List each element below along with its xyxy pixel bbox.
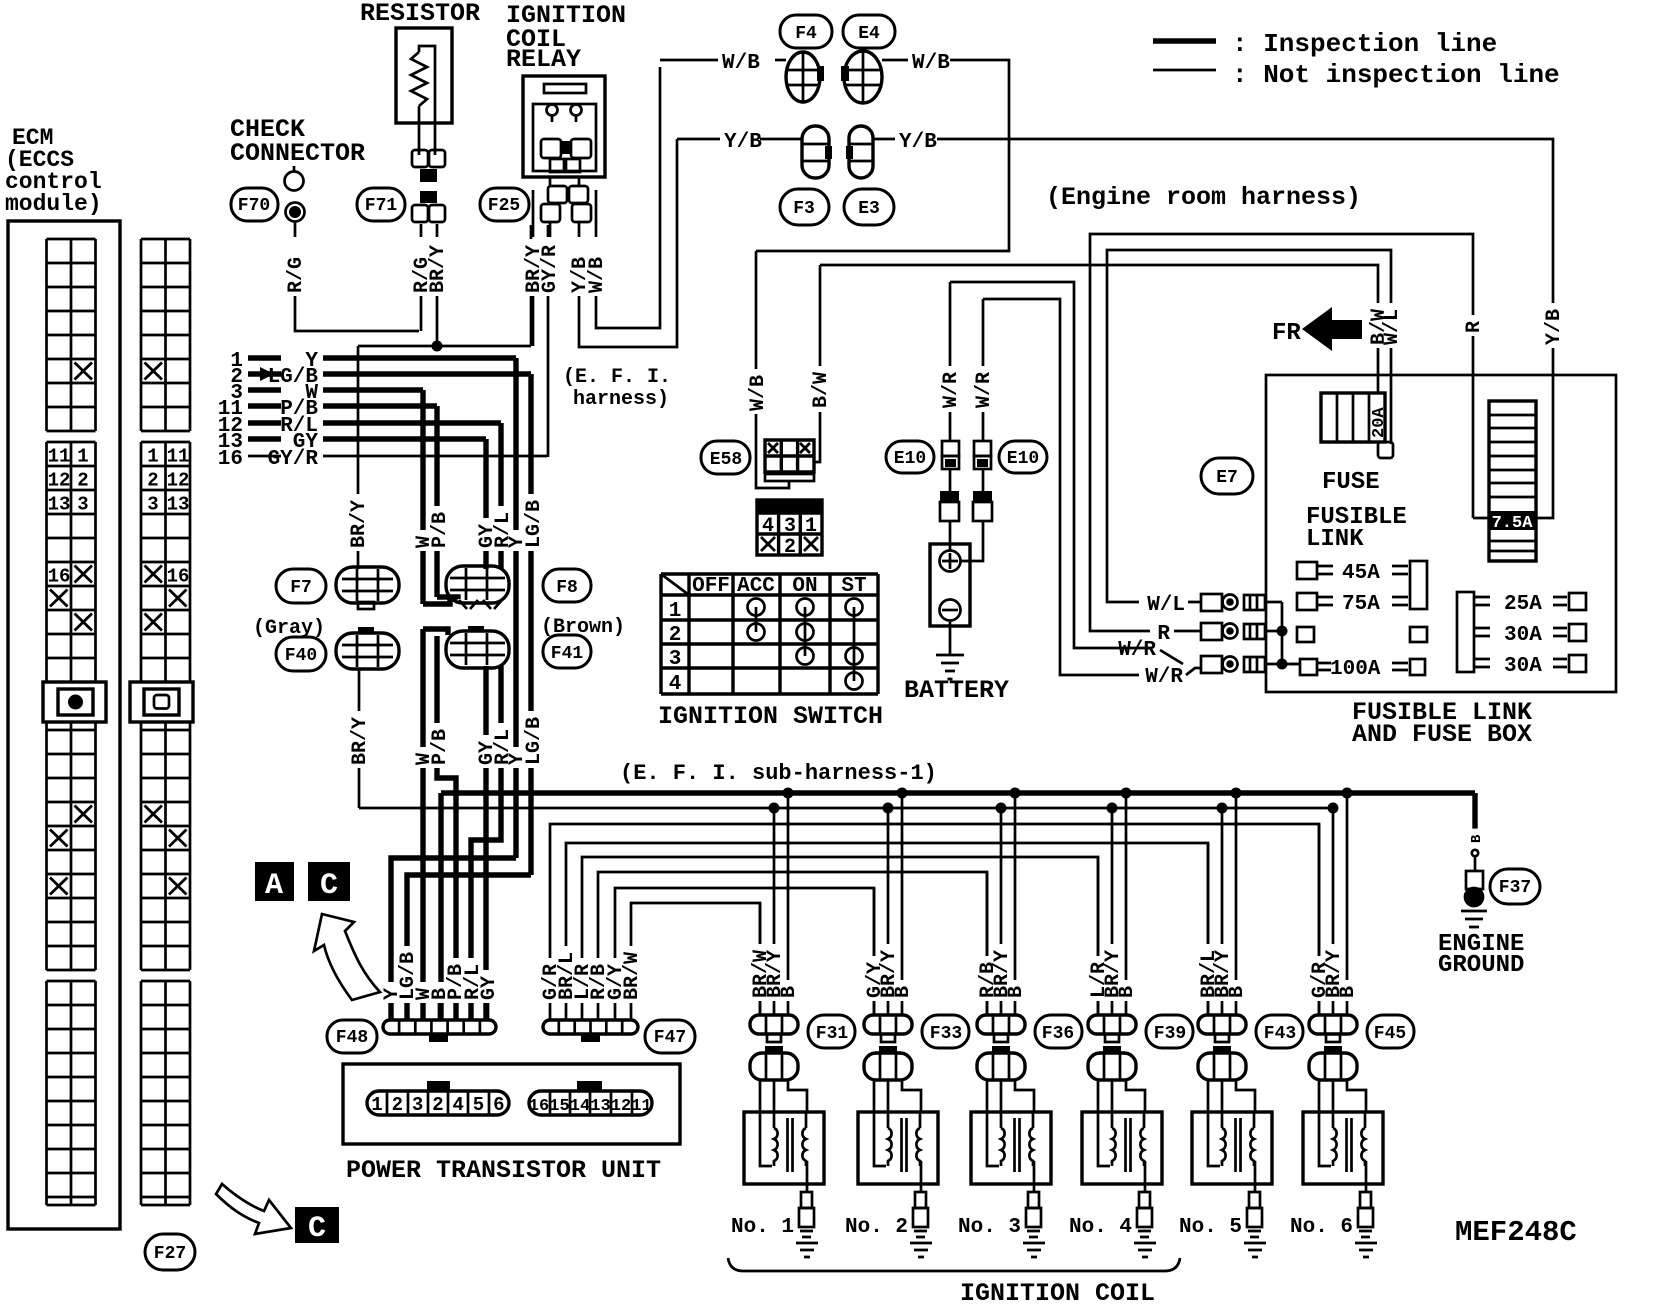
svg-text:E7: E7 [1216, 468, 1238, 488]
connector F8 label [543, 569, 591, 602]
svg-text:E3: E3 [858, 199, 880, 219]
arrow head on pin2 dash [260, 367, 274, 381]
ignition coil no2 box [858, 1112, 938, 1184]
svg-text:RELAY: RELAY [506, 45, 581, 74]
svg-text:No. 3: No. 3 [958, 1216, 1021, 1239]
wire Y to F48 [391, 858, 516, 1020]
svg-text:GY/R: GY/R [539, 245, 562, 293]
wire LG/B to F48 [407, 875, 531, 1020]
coil no2 leads [874, 1080, 921, 1125]
coil no1 leads [760, 1080, 807, 1125]
svg-text:3: 3 [669, 648, 682, 671]
svg-text:F48: F48 [336, 1028, 368, 1048]
svg-text:P/B: P/B [429, 729, 452, 765]
svg-text:1: 1 [147, 446, 158, 468]
svg-text:No. 4: No. 4 [1069, 1216, 1132, 1239]
svg-text:F3: F3 [793, 199, 815, 219]
svg-text:R/G: R/G [285, 257, 308, 293]
connector E3 symbol [849, 126, 873, 178]
connector F8 symbol [446, 566, 509, 603]
ECM connector strip 1 [47, 239, 96, 1205]
svg-text:F40: F40 [285, 646, 317, 666]
svg-text:Y/B: Y/B [899, 131, 937, 154]
svg-text:R: R [1463, 321, 1486, 333]
svg-text:(E. F. I. sub-harness-1): (E. F. I. sub-harness-1) [620, 761, 937, 786]
connector F36 symbol [977, 1015, 1025, 1034]
svg-text:module): module) [5, 191, 102, 217]
connector F4 label [780, 15, 832, 48]
svg-text:12: 12 [611, 1097, 631, 1116]
ECM strip2 special pin box [130, 682, 193, 722]
fusible link 25A [1474, 597, 1490, 605]
svg-text:11: 11 [167, 446, 190, 468]
svg-text:: Not inspection line: : Not inspection line [1232, 60, 1560, 90]
wire W/R right [982, 299, 985, 441]
fusible link and fuse box outline [1266, 375, 1616, 692]
ignition coil no4 box [1082, 1112, 1162, 1184]
wire B/W to fuse box [820, 265, 1378, 393]
connector F39 symbol [1088, 1015, 1136, 1034]
wire BR/Y from F71 [436, 224, 439, 346]
node A marker [255, 862, 294, 901]
svg-text:E58: E58 [710, 450, 742, 470]
svg-text:B: B [1116, 986, 1139, 998]
connector E4 symbol [844, 51, 882, 103]
check connector symbol [285, 172, 304, 191]
svg-text:: Inspection line: : Inspection line [1232, 29, 1497, 59]
svg-text:3: 3 [77, 494, 88, 516]
wire GY/R pin16 [323, 455, 547, 458]
svg-text:100A: 100A [1330, 658, 1381, 681]
coil no5 spark plug [1254, 1184, 1257, 1192]
main bus B inspection line [441, 790, 1475, 795]
wire W/B to E58 [756, 251, 789, 488]
svg-text:W/B: W/B [747, 375, 770, 411]
svg-text:13: 13 [167, 494, 190, 516]
svg-text:No. 2: No. 2 [845, 1216, 908, 1239]
connector F70 label [231, 188, 278, 221]
coil no2 bolt [879, 1046, 897, 1053]
ignition coil no2 wires [874, 793, 902, 1016]
svg-text:2: 2 [392, 1094, 403, 1116]
svg-text:(Engine room harness): (Engine room harness) [1046, 183, 1361, 212]
relay box [523, 76, 605, 177]
wire Y/B from E3 to fuse box [873, 138, 895, 141]
connector F40 label [276, 637, 326, 671]
coil no4 bolt [1103, 1046, 1121, 1053]
F48 pins [391, 1002, 488, 1020]
wire GY pin13 [323, 436, 486, 441]
F47 pins [550, 1002, 631, 1020]
svg-text:E4: E4 [858, 24, 880, 44]
svg-text:FUSE: FUSE [1322, 469, 1380, 496]
coil no5 transformer [1208, 1112, 1222, 1166]
svg-text:BR/W: BR/W [621, 952, 644, 1000]
wire LG/B vertical [528, 374, 533, 875]
svg-text:E10: E10 [894, 449, 926, 469]
connector F48 label [327, 1020, 377, 1053]
wire R from fuse to pin [1090, 234, 1489, 631]
svg-text:75A: 75A [1342, 593, 1380, 616]
wire Y pin1 [323, 355, 516, 360]
wire Y/B to F3 [677, 138, 720, 141]
wire R/L pin12 [323, 420, 501, 425]
E10 fusible element left [942, 441, 959, 456]
battery positive wire to E10 [961, 521, 983, 561]
svg-text:3: 3 [147, 494, 158, 516]
connector F31 symbol [750, 1015, 798, 1034]
coil no6 spark plug [1365, 1184, 1368, 1192]
connector E3 label [844, 189, 894, 225]
svg-text:ON: ON [792, 575, 817, 598]
ECM strip1 special pin box [43, 682, 106, 722]
svg-text:AND FUSE BOX: AND FUSE BOX [1352, 720, 1532, 749]
coil no3 plug ground [1023, 1243, 1045, 1257]
svg-text:F8: F8 [556, 578, 578, 598]
svg-text:RESISTOR: RESISTOR [360, 0, 480, 28]
wire R/G from check connector [295, 222, 419, 331]
svg-text:B: B [1005, 986, 1028, 998]
svg-text:16: 16 [167, 566, 190, 588]
ignition coil no4 wires [1098, 793, 1126, 1016]
coil no4 spark plug [1144, 1184, 1147, 1192]
svg-text:F33: F33 [930, 1024, 962, 1044]
wire P/B vertical [434, 406, 439, 597]
svg-text:F43: F43 [1264, 1024, 1296, 1044]
svg-text:A: A [265, 869, 283, 903]
connector E58 label [701, 441, 750, 474]
svg-text:OFF: OFF [692, 575, 730, 598]
wire W/L from fuse to pin [1107, 250, 1391, 602]
fusible link 75A [1297, 593, 1317, 610]
svg-text:1: 1 [371, 1094, 382, 1116]
connector F27 label [145, 1234, 195, 1270]
connector E10 right label [999, 441, 1047, 473]
svg-text:30A: 30A [1504, 624, 1542, 647]
connector E4 label [843, 15, 895, 48]
FR direction arrow [1302, 307, 1362, 351]
connector F3 label [780, 189, 829, 225]
wire W/R upper to fuse box [950, 282, 1152, 648]
connector F25 label [480, 188, 529, 221]
pin W/R [1201, 656, 1222, 673]
coil no2 transformer [874, 1112, 888, 1166]
connector F7 label [276, 569, 326, 603]
svg-text:CONNECTOR: CONNECTOR [230, 139, 365, 168]
switch continuity lines [756, 607, 854, 681]
resistor box [396, 28, 452, 123]
svg-text:ST: ST [841, 575, 866, 598]
connector F41 label [543, 635, 591, 668]
connector F71 symbol [412, 150, 428, 167]
svg-text:F45: F45 [1374, 1024, 1406, 1044]
coil no4 plug ground [1134, 1243, 1156, 1257]
wire W/R left [949, 282, 952, 441]
connector F39 label [1146, 1015, 1193, 1048]
svg-text:BR/Y: BR/Y [427, 245, 450, 293]
svg-text:7.5A: 7.5A [1492, 514, 1534, 533]
wire BR/Y horizontal [358, 225, 531, 346]
sub bus BR/Y line [359, 807, 1334, 810]
wire GY/R from F25 [547, 296, 550, 457]
fuse 20A [1321, 393, 1385, 442]
wire LG/B pin2 [323, 371, 531, 376]
right links common bar [1457, 592, 1474, 672]
svg-text:LG/B: LG/B [523, 500, 546, 548]
svg-text:No. 1: No. 1 [731, 1216, 794, 1239]
links 45A 75A common bar [1410, 561, 1427, 609]
coil no1 transformer [760, 1112, 774, 1166]
svg-text:W/R: W/R [940, 372, 963, 408]
connector F36 label [1035, 1015, 1082, 1048]
battery fuse left [949, 469, 952, 491]
svg-text:W/B: W/B [586, 257, 609, 293]
relay top bar [544, 84, 586, 93]
fuse 7.5A [1489, 401, 1536, 561]
svg-text:LINK: LINK [1306, 526, 1364, 553]
wire W/B from E4 [882, 59, 908, 62]
coil no3 leads [987, 1080, 1034, 1125]
svg-text:F39: F39 [1154, 1024, 1186, 1044]
pin W/L [1201, 594, 1222, 611]
svg-text:ACC: ACC [737, 575, 775, 598]
PTU connector left [427, 1081, 450, 1091]
ignition coil no3 wires [987, 793, 1015, 1016]
svg-text:F27: F27 [154, 1244, 186, 1264]
svg-text:BATTERY: BATTERY [904, 676, 1009, 705]
relay to F25 stubs [550, 177, 579, 186]
svg-text:30A: 30A [1504, 655, 1542, 678]
ignition coil brace [728, 1258, 1180, 1271]
coil no5 plug ground [1244, 1243, 1266, 1257]
svg-text:harness): harness) [573, 388, 669, 411]
connector F71 label [357, 188, 405, 221]
connector F7 symbol [336, 567, 399, 603]
connector F33 symbol [864, 1015, 912, 1034]
connector F3 symbol [802, 126, 829, 178]
svg-text:F4: F4 [795, 24, 817, 44]
svg-text:W/R: W/R [973, 372, 996, 408]
wire BR/Y from F25 [532, 225, 535, 346]
svg-text:13: 13 [590, 1097, 610, 1116]
svg-text:R: R [1157, 623, 1170, 646]
svg-text:F36: F36 [1042, 1024, 1074, 1044]
E58 pin block 431 [757, 500, 822, 514]
bus junction dots [783, 788, 794, 799]
E58 connector grid [765, 440, 814, 472]
svg-text:MEF248C: MEF248C [1455, 1216, 1577, 1249]
connector F37 label [1490, 869, 1540, 904]
arrow to lower C marker [216, 1184, 291, 1234]
svg-text:W/L: W/L [1381, 309, 1404, 345]
svg-text:2: 2 [147, 470, 158, 492]
svg-text:F70: F70 [238, 196, 270, 216]
fusible link 45A [1297, 562, 1317, 579]
wires F47 to ignition coils [631, 903, 760, 1016]
svg-text:25A: 25A [1504, 593, 1542, 616]
node C marker lower [295, 1207, 339, 1243]
switch position circles [748, 599, 765, 616]
connector F43 label [1256, 1015, 1303, 1048]
coil no1 bolt [765, 1046, 783, 1053]
svg-text:(E. F. I.: (E. F. I. [563, 366, 671, 389]
svg-text:1: 1 [669, 600, 682, 623]
svg-text:4: 4 [762, 515, 774, 538]
fusible link 30A lower [1474, 659, 1490, 667]
connector F43 symbol [1198, 1015, 1246, 1034]
svg-text:W/B: W/B [722, 52, 760, 75]
svg-text:14: 14 [570, 1097, 590, 1116]
node C marker [308, 862, 350, 901]
svg-text:16: 16 [218, 448, 243, 471]
wire R/G from F71 [420, 224, 423, 331]
ignition coil no1 wires [760, 793, 788, 1016]
coil no4 transformer [1098, 1112, 1112, 1166]
coil no2 plug ground [910, 1243, 932, 1257]
wire GY to F48 [483, 666, 488, 1020]
spare link sockets [1297, 627, 1314, 642]
svg-text:BR/Y: BR/Y [349, 717, 372, 765]
svg-text:E10: E10 [1007, 449, 1039, 469]
svg-text:GROUND: GROUND [1438, 952, 1524, 979]
PTU connector right [577, 1081, 602, 1091]
fusible link 100A [1300, 659, 1317, 675]
svg-text:15: 15 [549, 1097, 569, 1116]
svg-text:3: 3 [412, 1094, 423, 1116]
svg-text:B: B [1337, 986, 1360, 998]
svg-text:2: 2 [669, 624, 682, 647]
hooks under F8 [423, 597, 458, 604]
battery fuse right [982, 469, 985, 491]
wire W/R lower to fuse box [983, 299, 1139, 675]
svg-text:IGNITION COIL: IGNITION COIL [960, 1279, 1155, 1308]
connector F48 bar [383, 1020, 496, 1034]
connector F25 symbol [548, 186, 567, 203]
legend inspection line sample [1153, 38, 1216, 43]
svg-text:F41: F41 [551, 644, 584, 664]
coil no6 bolt [1324, 1046, 1342, 1053]
engine ground connector F37 [1472, 850, 1478, 856]
svg-text:C: C [308, 1212, 326, 1246]
ignition switch table [661, 574, 878, 694]
svg-text:12: 12 [167, 470, 190, 492]
battery box [930, 544, 970, 626]
ignition coil no5 wires [1208, 793, 1236, 1016]
wire R/L vertical [498, 423, 503, 569]
connector F45 symbol [1309, 1015, 1357, 1034]
svg-text:B: B [1226, 986, 1249, 998]
svg-text:W/R: W/R [1145, 666, 1183, 689]
coil no6 plug ground [1355, 1243, 1377, 1257]
wire color labels overlay [288, 251, 306, 296]
svg-text:POWER TRANSISTOR UNIT: POWER TRANSISTOR UNIT [346, 1156, 661, 1185]
svg-text:2: 2 [77, 470, 88, 492]
coil no6 leads [1319, 1080, 1366, 1125]
svg-text:1: 1 [77, 446, 88, 468]
svg-text:F47: F47 [654, 1028, 686, 1048]
relay inner box [533, 104, 596, 171]
wire W/B to F4 [660, 59, 718, 62]
connector F47 label [645, 1020, 695, 1053]
connector F47 bar [543, 1020, 638, 1034]
wire W/B from F25 [596, 67, 660, 328]
svg-text:45A: 45A [1342, 562, 1380, 585]
svg-text:11: 11 [631, 1097, 651, 1116]
ECM connector strip 2 [141, 239, 190, 1205]
wire BR/Y below F40 [358, 669, 361, 808]
svg-text:IGNITION SWITCH: IGNITION SWITCH [658, 702, 883, 731]
svg-text:W/B: W/B [912, 52, 950, 75]
svg-text:FR: FR [1272, 320, 1301, 347]
legend not-inspection line sample [1153, 69, 1216, 72]
wire B to engine ground [1472, 793, 1477, 842]
svg-text:LG/B: LG/B [523, 717, 546, 765]
svg-text:W/L: W/L [1147, 594, 1185, 617]
wire GY vertical [483, 439, 488, 569]
svg-text:2: 2 [432, 1094, 443, 1116]
pin R [1201, 623, 1222, 640]
svg-text:F7: F7 [290, 578, 312, 598]
wire to battery positive [949, 521, 952, 551]
svg-text:5: 5 [473, 1094, 484, 1116]
svg-text:C: C [320, 869, 338, 903]
connector F31 label [808, 1015, 855, 1048]
svg-text:GY: GY [478, 976, 501, 1000]
ECM outer box [8, 221, 120, 1229]
svg-text:B/W: B/W [810, 372, 833, 408]
engine ground symbol [1461, 911, 1487, 927]
svg-text:BR/Y: BR/Y [348, 500, 371, 548]
connector F40 symbol [336, 633, 399, 669]
connector E7 label [1201, 458, 1253, 494]
arrow to A C markers [314, 914, 380, 1000]
svg-text:F31: F31 [816, 1024, 849, 1044]
wire W vertical [420, 390, 425, 604]
wire B to F48 [438, 793, 443, 1020]
svg-text:B: B [778, 986, 801, 998]
wire W to F48 [420, 629, 425, 1020]
connector F41 symbol [446, 631, 509, 668]
power transistor unit box [343, 1064, 680, 1144]
wire P/B pin11 [323, 403, 437, 408]
svg-text:1: 1 [805, 515, 817, 538]
connector F33 label [922, 1015, 969, 1048]
svg-text:B: B [892, 986, 915, 998]
coil no5 bolt [1213, 1046, 1231, 1053]
fuse box internal bus [1281, 602, 1284, 664]
svg-text:Y/B: Y/B [724, 131, 762, 154]
svg-text:No. 5: No. 5 [1179, 1216, 1242, 1239]
svg-text:GY/R: GY/R [268, 448, 319, 471]
svg-text:12: 12 [48, 470, 71, 492]
wire Y/B from F25 [579, 139, 677, 347]
ignition coil no6 box [1303, 1112, 1383, 1184]
wire B/W from E58 [814, 265, 820, 462]
svg-text:4: 4 [452, 1094, 463, 1116]
battery positive terminal [940, 551, 961, 572]
wire R/L to F48 [471, 666, 501, 1020]
junction BR/Y [432, 341, 443, 352]
fusible link 30A [1474, 628, 1490, 636]
wire BR/Y to F7 [357, 346, 360, 569]
svg-text:B: B [1469, 834, 1485, 843]
coil no1 spark plug [806, 1184, 809, 1192]
svg-text:F37: F37 [1499, 878, 1531, 898]
coil no6 transformer [1319, 1112, 1333, 1166]
svg-text:13: 13 [48, 494, 71, 516]
coil no2 spark plug [920, 1184, 923, 1192]
E10 fusible element right [974, 441, 991, 456]
